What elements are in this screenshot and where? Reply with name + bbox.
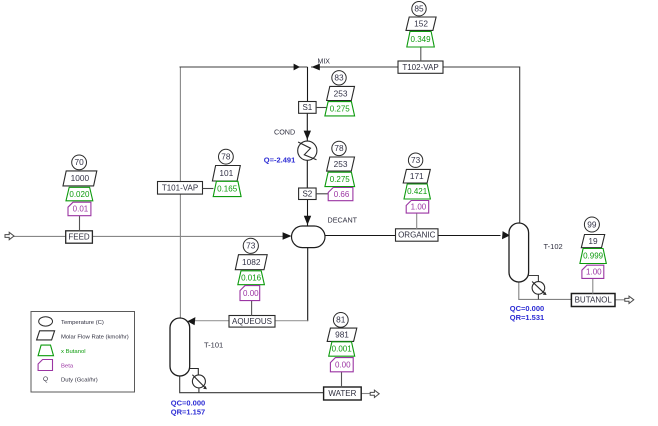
wire S1 to COND xyxy=(306,113,308,142)
stream T101-VAP temperature 78 xyxy=(219,149,234,164)
svg-text:QR=1.157: QR=1.157 xyxy=(171,408,205,417)
label QC T-101 xyxy=(171,399,205,408)
legend beta symbol xyxy=(38,360,52,371)
svg-text:85: 85 xyxy=(414,4,424,14)
arrow into MIX from left xyxy=(294,64,300,71)
svg-text:T-101: T-101 xyxy=(204,341,223,350)
svg-text:83: 83 xyxy=(334,73,344,83)
svg-text:QC=0.000: QC=0.000 xyxy=(171,399,205,408)
svg-text:73: 73 xyxy=(411,155,421,165)
svg-text:ORGANIC: ORGANIC xyxy=(398,231,436,240)
svg-text:Q: Q xyxy=(43,376,48,383)
svg-text:QC=0.000: QC=0.000 xyxy=(510,304,544,313)
box T101-VAP xyxy=(158,182,203,195)
label QR T-101 xyxy=(171,408,205,417)
svg-text:Temperature (C): Temperature (C) xyxy=(61,320,104,326)
label T-101 xyxy=(204,341,223,350)
svg-text:70: 70 xyxy=(74,157,84,167)
stream T101-VAP flow 101 xyxy=(212,166,240,182)
svg-text:0.001: 0.001 xyxy=(332,345,353,354)
box AQUEOUS xyxy=(229,316,275,328)
stream T102-VAP data connector xyxy=(420,47,422,61)
svg-text:BUTANOL: BUTANOL xyxy=(575,296,613,305)
svg-text:0.275: 0.275 xyxy=(330,104,351,113)
stream 83 xButanol 0.275 xyxy=(325,102,355,116)
reboiler T-102 circle xyxy=(532,282,545,295)
arrow FEED into DECANT xyxy=(283,232,292,239)
legend molar flow symbol xyxy=(37,331,55,340)
stream 78 flow 253 xyxy=(327,157,355,171)
stream BUTANOL temperature 99 xyxy=(584,217,599,232)
wire BUTANOL outlet stub xyxy=(615,299,625,301)
svg-text:0.020: 0.020 xyxy=(69,190,90,199)
decanter DECANT vessel xyxy=(292,226,326,248)
legend box xyxy=(31,312,135,393)
stream AQUEOUS data connector xyxy=(251,300,253,315)
svg-text:152: 152 xyxy=(414,19,428,29)
node DECANT label xyxy=(328,216,358,225)
svg-text:Duty (Gcal/hr): Duty (Gcal/hr) xyxy=(61,378,98,384)
condenser COND zigzag xyxy=(298,142,316,160)
column T-102 vessel xyxy=(509,223,529,282)
stream ORGANIC data connector xyxy=(416,213,418,229)
inlet arrow FEED xyxy=(5,232,14,239)
wire T-102 bottoms to BUTANOL xyxy=(519,282,572,300)
box WATER xyxy=(324,387,362,400)
svg-text:1000: 1000 xyxy=(71,173,90,183)
stream FEED flow 1000 xyxy=(63,171,97,186)
node MIX label xyxy=(318,59,331,66)
outlet arrow BUTANOL xyxy=(625,296,634,303)
svg-text:T101-VAP: T101-VAP xyxy=(162,184,198,193)
legend molar flow text xyxy=(61,335,129,341)
svg-text:T-102: T-102 xyxy=(544,242,563,251)
legend beta text xyxy=(61,364,74,370)
label Q=-2.491 xyxy=(264,156,295,165)
wire AQUEOUS horizontal xyxy=(190,320,308,322)
svg-text:WATER: WATER xyxy=(328,389,356,398)
stream 78 temperature xyxy=(332,141,346,155)
svg-text:x Butanol: x Butanol xyxy=(61,349,86,355)
wire MIX down to S1 xyxy=(307,67,309,102)
legend temperature symbol xyxy=(39,317,53,326)
svg-text:1082: 1082 xyxy=(242,257,261,267)
wire DECANT to ORGANIC to T-102 xyxy=(325,235,501,237)
svg-text:0.165: 0.165 xyxy=(217,185,238,194)
svg-text:DECANT: DECANT xyxy=(328,216,358,225)
stream WATER data connector xyxy=(341,372,343,388)
svg-text:Beta: Beta xyxy=(61,364,74,370)
legend xButanol text xyxy=(61,349,86,355)
arrow into MIX from right xyxy=(312,64,320,71)
svg-text:171: 171 xyxy=(410,171,424,181)
stream FEED temperature 70 xyxy=(72,155,87,170)
outlet arrow WATER xyxy=(370,390,379,397)
svg-text:0.00: 0.00 xyxy=(335,360,351,369)
label QC T-102 xyxy=(510,304,544,313)
legend xButanol symbol xyxy=(38,345,53,356)
column T-101 vessel xyxy=(170,318,190,376)
svg-text:FEED: FEED xyxy=(68,233,90,242)
stream FEED beta 0.01 xyxy=(68,202,91,216)
stream 83 temperature xyxy=(332,71,346,85)
svg-text:Molar Flow Rate (kmol/hr): Molar Flow Rate (kmol/hr) xyxy=(61,335,129,341)
node COND label xyxy=(274,128,295,137)
svg-text:T102-VAP: T102-VAP xyxy=(402,63,438,72)
stream ORGANIC xButanol 0.421 xyxy=(404,184,430,199)
svg-text:78: 78 xyxy=(334,143,344,153)
svg-text:0.016: 0.016 xyxy=(241,273,262,282)
condenser COND circle xyxy=(298,141,317,160)
arrow AQUEOUS into T-101 xyxy=(187,317,195,325)
reboiler T-101 diagonal xyxy=(192,375,207,390)
svg-text:0.275: 0.275 xyxy=(330,175,351,184)
stream T102-VAP temperature 85 xyxy=(412,2,426,16)
svg-text:0.421: 0.421 xyxy=(407,187,428,196)
reboiler T-101 circle xyxy=(192,375,205,388)
wire T102-VAP to T-102 segment xyxy=(443,67,520,224)
stream ORGANIC temperature 73 xyxy=(408,153,422,167)
svg-text:81: 81 xyxy=(336,315,346,325)
wire T-101 bottoms to WATER xyxy=(180,376,324,393)
arrow ORGANIC into T-102 xyxy=(502,231,510,239)
box BUTANOL xyxy=(571,294,615,307)
box T102-VAP xyxy=(398,61,443,73)
stream AQUEOUS temperature 73 xyxy=(243,238,258,253)
wire T102-VAP to MIX segment xyxy=(311,66,398,68)
svg-text:0.66: 0.66 xyxy=(334,190,350,199)
legend temperature text xyxy=(61,320,104,326)
stream T102-VAP flow 152 xyxy=(406,17,436,30)
svg-text:S1: S1 xyxy=(302,103,312,112)
wire S2 to DECANT xyxy=(307,199,309,226)
stream AQUEOUS xButanol 0.016 xyxy=(238,271,265,285)
svg-text:0.999: 0.999 xyxy=(583,252,604,261)
svg-text:AQUEOUS: AQUEOUS xyxy=(232,317,272,326)
svg-text:78: 78 xyxy=(221,152,231,162)
svg-text:101: 101 xyxy=(219,168,233,178)
stream 83 connector xyxy=(316,107,327,109)
legend Q text xyxy=(61,378,98,384)
stream AQUEOUS flow 1082 xyxy=(235,255,267,270)
svg-text:COND: COND xyxy=(274,128,295,137)
stream WATER beta 0.00 xyxy=(330,358,353,372)
stream 78 beta 0.66 xyxy=(328,188,353,201)
wire COND to S2 xyxy=(306,160,308,189)
wire WATER outlet stub xyxy=(361,393,370,395)
box S1 xyxy=(299,102,317,114)
svg-text:981: 981 xyxy=(335,330,349,340)
stream WATER xButanol 0.001 xyxy=(329,342,355,356)
label T-102 xyxy=(544,242,563,251)
stream BUTANOL beta 1.00 xyxy=(582,265,604,278)
stream T102-VAP xButanol 0.349 xyxy=(407,31,435,47)
svg-text:MIX: MIX xyxy=(318,59,331,66)
stream ORGANIC beta 1.00 xyxy=(406,201,429,214)
stream FEED data connector xyxy=(79,216,81,232)
label QR T-102 xyxy=(510,313,544,322)
svg-text:QR=1.531: QR=1.531 xyxy=(510,313,544,322)
svg-text:73: 73 xyxy=(246,241,256,251)
reboiler T-101 pipe xyxy=(190,369,199,393)
stream 78 xButanol 0.275 xyxy=(325,172,355,186)
stream BUTANOL flow 19 xyxy=(581,235,604,248)
svg-text:253: 253 xyxy=(334,159,348,169)
svg-text:Q=-2.491: Q=-2.491 xyxy=(264,156,295,165)
svg-text:19: 19 xyxy=(588,236,598,246)
stream WATER flow 981 xyxy=(327,328,357,341)
stream BUTANOL xButanol 0.999 xyxy=(580,249,606,264)
box ORGANIC xyxy=(396,229,439,241)
svg-text:99: 99 xyxy=(587,219,597,229)
stream FEED xButanol 0.020 xyxy=(66,187,93,201)
stream AQUEOUS beta 0.00 xyxy=(240,286,260,301)
box FEED xyxy=(66,231,93,243)
legend Q symbol xyxy=(43,376,48,383)
svg-text:0.00: 0.00 xyxy=(243,289,259,298)
stream BUTANOL data connector xyxy=(592,278,594,294)
wire DECANT bottom drop xyxy=(307,248,309,322)
stream T101-VAP connector xyxy=(203,188,214,190)
wire T101-VAP riser xyxy=(179,67,181,319)
stream ORGANIC flow 171 xyxy=(403,169,430,183)
stream 78 connector xyxy=(316,193,328,195)
svg-text:S2: S2 xyxy=(302,189,312,198)
wire top header T101-VAP to MIX xyxy=(180,66,308,68)
arrow S2 to DECANT xyxy=(304,216,311,225)
svg-text:1.00: 1.00 xyxy=(411,203,427,212)
svg-text:253: 253 xyxy=(334,88,348,98)
arrow S1 to COND xyxy=(304,131,311,140)
reboiler T-102 pipe xyxy=(529,276,539,300)
reboiler T-102 diagonal xyxy=(532,282,547,296)
svg-text:0.349: 0.349 xyxy=(411,35,432,44)
box S2 xyxy=(299,188,317,200)
svg-text:1.00: 1.00 xyxy=(586,268,602,277)
wire FEED inlet line xyxy=(13,235,284,237)
stream 83 flow 253 xyxy=(327,86,355,100)
stream WATER temperature 81 xyxy=(333,313,348,328)
svg-text:0.01: 0.01 xyxy=(73,205,89,214)
stream T101-VAP xButanol 0.165 xyxy=(213,181,241,196)
